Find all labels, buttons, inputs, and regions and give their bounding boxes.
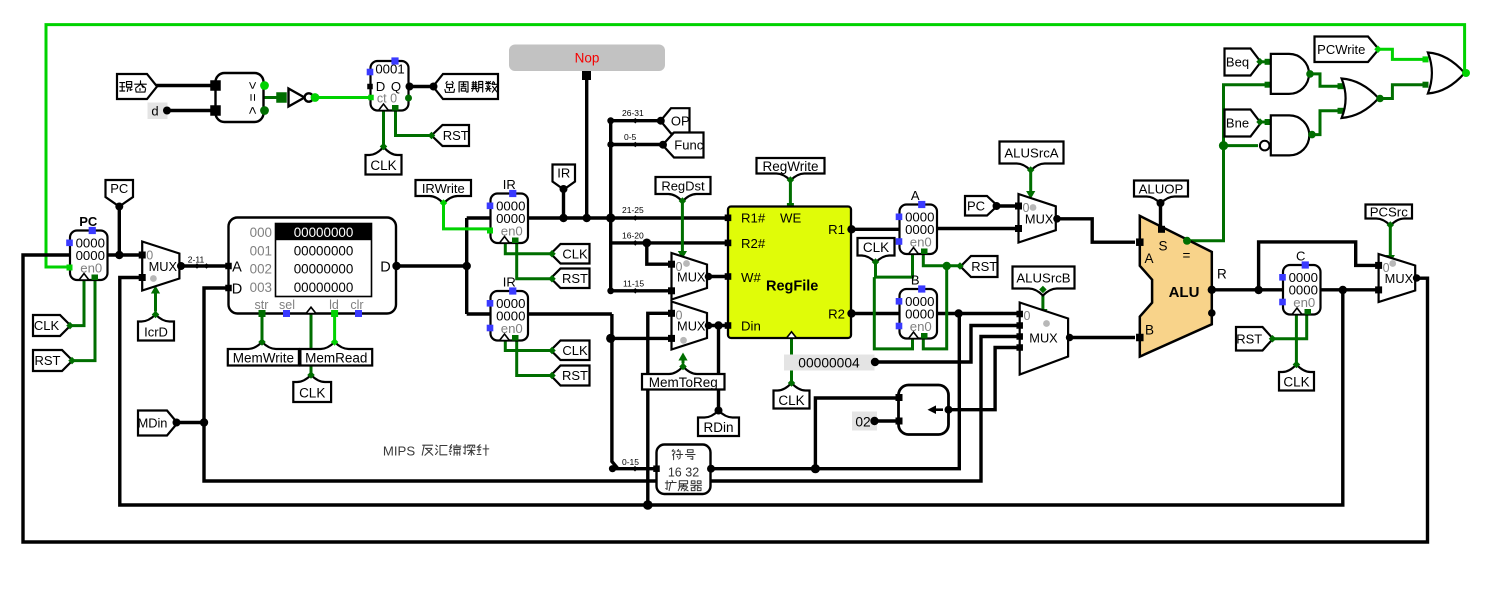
svg-text:0001: 0001 [375, 62, 404, 77]
wire RegDst select (dark green) [681, 202, 684, 253]
input pin RST for IR1 [551, 269, 590, 289]
wire bits 16-20 branch to RegDst MUX input 1 [647, 243, 673, 264]
svg-text:RegWrite: RegWrite [762, 159, 818, 174]
svg-text:CLK: CLK [34, 318, 60, 333]
wire RegFile R1 to A register D [851, 228, 901, 231]
svg-text:0-15: 0-15 [622, 457, 639, 467]
wire RAM ld to MemRead (bright green) [333, 314, 336, 343]
wire C register RST (dark green) [1273, 315, 1307, 339]
wire sign-extender output rail up to B rail [709, 315, 959, 469]
input pin MDin [138, 411, 178, 436]
input pin RST for A/B registers [961, 256, 998, 277]
register PC [66, 214, 107, 280]
svg-text:IRWrite: IRWrite [422, 181, 465, 196]
svg-text:Beq: Beq [1226, 55, 1249, 70]
wire RAM str to MemWrite (dark green) [261, 314, 264, 343]
AND gate branch-eq [1265, 54, 1314, 94]
svg-text:ALUOP: ALUOP [1139, 182, 1184, 197]
node Nop junction on instruction bus [583, 214, 591, 222]
svg-text:000: 000 [250, 225, 272, 240]
svg-text:B: B [1145, 323, 1154, 338]
multiplexer ALUSrcA MUX [1019, 194, 1056, 243]
wire PC RST (dark green) [72, 281, 95, 361]
svg-text:C: C [1296, 249, 1305, 264]
wire RegFile R2 to B register D [851, 312, 901, 315]
wire IR2 CLK (dark green) [505, 340, 551, 351]
svg-text:RST: RST [35, 353, 61, 368]
wire address MUX output to RAM A port [181, 264, 229, 267]
input pin RegWrite [757, 158, 825, 181]
shifter shift-left unit [896, 385, 953, 435]
svg-text:WE: WE [780, 211, 801, 226]
svg-text:003: 003 [250, 280, 272, 295]
wire Bne to AND gate 2 (dark green) [1260, 121, 1267, 124]
input pin IcrD [138, 315, 174, 341]
node IR2 splitter branch junction [606, 334, 615, 343]
RAM memory block [225, 218, 400, 318]
svg-text:>: > [245, 82, 260, 90]
svg-text:PCWrite: PCWrite [1317, 42, 1365, 57]
wire RAM clock from CLK label (dark green, behind MemRead) [310, 314, 313, 375]
wire AND1 output to OR1 input (dark green) [1309, 74, 1339, 86]
svg-text:00000004: 00000004 [798, 355, 860, 370]
wire ALU-result loop: address MUX in2, bottom rail, MemToReg in1, ALU R rail [120, 278, 1343, 506]
svg-text:RST: RST [1236, 331, 1262, 346]
wire MemToReg MUX output to RegFile Din, RDin branch [708, 326, 729, 410]
svg-text:00000000: 00000000 [294, 262, 354, 277]
probe d with value tag [148, 103, 168, 120]
svg-text:002: 002 [250, 262, 272, 277]
input pin RST for PC [33, 350, 73, 371]
node branch-equal junction [1219, 141, 1228, 150]
node IR label junction on instruction bus [559, 214, 567, 222]
input pin PCSrc [1366, 205, 1413, 226]
wire counter RST (dark green) [396, 110, 432, 136]
output pin RDin [698, 411, 739, 437]
wire ALUSrcB select (dark green) [1041, 290, 1044, 311]
input pin CLK for counter [366, 147, 402, 175]
wire ALUSrcA MUX output to ALU A [1057, 219, 1135, 242]
output pin PC probe label [106, 180, 134, 207]
wire ALU = flag to branch gates (dark green) [1187, 146, 1258, 241]
node ALU R junction [1254, 286, 1262, 294]
svg-text:MUX: MUX [1029, 331, 1058, 346]
input pin CLK for A/B registers [858, 238, 895, 263]
svg-text:ld: ld [329, 298, 339, 312]
svg-text:CLK: CLK [370, 158, 396, 173]
wire splitter arm bits 26-31 to OP [611, 119, 661, 122]
input pin 现态 (current state) [117, 74, 157, 99]
input pin CLK for IR1 [551, 244, 590, 264]
input pin ALUSrcB [1013, 267, 1075, 296]
output pin IR probe label [553, 165, 576, 190]
wire sign-extender branch to shifter input 1 [815, 398, 897, 469]
svg-text:IcrD: IcrD [144, 324, 168, 339]
wire splitter arm bits 16-20 to RegFile R2# [611, 241, 728, 244]
svg-text:R1#: R1# [741, 211, 766, 226]
wire C register CLK (dark green) [1295, 315, 1298, 364]
svg-text:MemWrite: MemWrite [233, 351, 294, 366]
wire IcrD select to address MUX (dark green) [154, 293, 157, 312]
node bottom rail to MemToReg junction [643, 500, 653, 510]
svg-text:CLK: CLK [299, 385, 325, 400]
svg-text:D: D [232, 282, 242, 298]
comparator U1 [210, 73, 269, 122]
node splitter spine of instruction bus [609, 121, 612, 291]
svg-text:MemToReg: MemToReg [649, 375, 718, 390]
svg-text:MemRead: MemRead [305, 351, 367, 366]
wire IR probe label drop [562, 189, 565, 218]
svg-text:21-25: 21-25 [622, 205, 644, 215]
input pin CLK for IR2 [551, 341, 590, 361]
svg-text:A: A [232, 259, 242, 275]
input pin IRWrite [416, 180, 472, 204]
svg-text:PCSrc: PCSrc [1370, 205, 1409, 220]
output pin Func [663, 133, 704, 158]
svg-text:001: 001 [250, 243, 272, 258]
svg-text:CLK: CLK [1283, 375, 1309, 390]
wire IR1 CLK (dark green) [505, 242, 551, 254]
wire ALUOP to ALU S select [1159, 204, 1162, 228]
svg-text:CLK: CLK [562, 246, 588, 261]
input pin RST for C register [1236, 327, 1273, 351]
svg-text:IR: IR [557, 166, 570, 181]
svg-text:2-11: 2-11 [188, 255, 205, 265]
input pin RegDst [656, 177, 711, 202]
ALU arithmetic unit [1136, 216, 1227, 357]
wire PCWrite-enable loop (bright green, OR output to PC en and top rail) [46, 25, 1465, 267]
multiplexer address MUX (IcrD) [142, 242, 179, 291]
wire splitter arm bits 11-15 to RegDst MUX input 2 [611, 289, 673, 292]
input pin ALUOP [1134, 181, 1188, 204]
wire B register Q to ALUSrcB MUX input 1 [937, 312, 1022, 315]
svg-text:RST: RST [971, 259, 997, 274]
node splitter junction on instruction bus [606, 213, 615, 222]
svg-text:<: < [245, 107, 260, 115]
wire constant 00000004 to ALUSrcB MUX input 2 [875, 326, 1022, 363]
svg-text:ALU: ALU [1169, 284, 1200, 301]
wire A register Q to ALUSrcA MUX input 2 [937, 227, 1021, 230]
AND gate branch-ne with inverted input [1260, 115, 1316, 155]
input pin ALUSrcA [1000, 142, 1064, 171]
svg-text:00000000: 00000000 [294, 225, 354, 240]
svg-text:D: D [380, 259, 390, 275]
wire instruction bus IR1 Q to RegFile R1# (bits 21-25) [528, 216, 728, 219]
input pin RST for counter [432, 125, 470, 146]
wire ALUSrcB MUX output to ALU B [1068, 336, 1135, 339]
svg-text:RST: RST [562, 368, 588, 383]
wire RegFile CLK (dark green) [790, 339, 793, 382]
svg-text:R: R [1217, 267, 1227, 282]
wire AND2 output to OR1 input (dark green) [1311, 111, 1339, 135]
svg-text:RST: RST [443, 128, 469, 143]
svg-text:Func: Func [674, 138, 703, 153]
svg-text:CLK: CLK [863, 240, 889, 255]
svg-text:RegFile: RegFile [766, 279, 818, 295]
svg-text:MDin: MDin [138, 416, 168, 431]
node C output junction [1339, 286, 1347, 294]
input pin Beq [1225, 49, 1261, 76]
svg-text:ct 0: ct 0 [377, 92, 397, 106]
svg-text:CLK: CLK [562, 343, 588, 358]
input pin CLK for RAM [293, 375, 331, 402]
svg-text:Bne: Bne [1226, 116, 1249, 131]
svg-text:R2#: R2# [741, 236, 766, 251]
svg-text:A: A [911, 188, 920, 203]
wire ALUSrcA select (dark green) [1029, 171, 1032, 193]
svg-text:A: A [1145, 251, 1154, 266]
wire d probe to comparator input B [167, 109, 217, 112]
OR gate branch combine [1338, 79, 1384, 119]
svg-text:S: S [1159, 239, 1168, 254]
register IR instruction register high [487, 177, 528, 243]
wire counter Q to 总周期数 [409, 85, 434, 88]
multiplexer MemToReg MUX [672, 302, 708, 350]
multiplexer ALUSrcB MUX (4 inputs) [1020, 303, 1068, 375]
svg-text:0-5: 0-5 [624, 132, 637, 142]
wire 现态 to comparator input A [156, 84, 216, 87]
svg-text:PC: PC [967, 198, 985, 213]
svg-text:MUX: MUX [677, 319, 706, 334]
svg-text:ALUSrcA: ALUSrcA [1004, 146, 1058, 161]
node Din-RDin junction [714, 321, 722, 329]
wire A/B register RST net (dark green) [923, 255, 959, 266]
output pin 总周期数 (total cycles) [433, 74, 498, 99]
input pin Bne [1225, 110, 1261, 137]
input pin MemRead [300, 342, 372, 366]
register B [896, 273, 937, 339]
wire C register Q to PCSrc MUX input 2 [1321, 288, 1381, 291]
wire ALU R to PCSrc MUX input 1 (over C register) [1259, 242, 1380, 290]
wire constant 02 to shifter input 2 [875, 419, 897, 422]
svg-text:02: 02 [855, 414, 870, 429]
svg-text:OP: OP [671, 113, 690, 128]
multiplexer RegDst MUX [672, 253, 708, 300]
wire next-PC feedback: PCSrc MUX output to PC D via bottom rail [23, 255, 1428, 542]
wire MDin to RAM data-in rail [177, 421, 205, 424]
svg-text:16-20: 16-20 [622, 231, 644, 241]
NOT gate G1 [276, 89, 319, 107]
svg-text:clr: clr [350, 298, 363, 312]
svg-text:16 32: 16 32 [668, 466, 699, 480]
wire RegDst MUX output to RegFile W# [708, 275, 729, 278]
register A [896, 188, 937, 254]
svg-text:MUX: MUX [1025, 211, 1054, 226]
node PC label junction [115, 251, 123, 259]
svg-text:MUX: MUX [1385, 271, 1414, 286]
node MDin junction [200, 418, 208, 426]
sign extender 符号 16-32 扩展器 [653, 445, 715, 495]
svg-text:B: B [911, 273, 920, 288]
svg-text:ALUSrcB: ALUSrcB [1016, 271, 1070, 286]
wire RAM data-in rail to ALUSrcB MUX input 3 (bottom rail) [204, 288, 1021, 481]
node sign-extend to shifter junction [811, 464, 820, 473]
wire MemToReg select (dark green) [682, 360, 685, 364]
wire counter CLK (dark green) [382, 110, 385, 146]
wire comparator = output to NOT gate (dark green) [264, 96, 286, 99]
wire splitter arm bits 0-5 to Func [611, 143, 663, 146]
wire IR2 RST (dark green) [517, 340, 552, 376]
svg-text:PC: PC [110, 181, 128, 196]
svg-text:MUX: MUX [149, 259, 178, 274]
svg-text:PC: PC [79, 214, 98, 229]
svg-text:IR: IR [503, 177, 516, 192]
constant Nop banner [509, 45, 665, 72]
wire A/B register CLK net (dark green) [876, 255, 913, 278]
wire Nop pin drop to instruction bus [585, 80, 588, 218]
svg-text:sel: sel [279, 298, 295, 312]
wire ALU R output to C register [1212, 288, 1284, 291]
svg-text:IR: IR [503, 275, 516, 290]
wire IR1 RST (dark green) [517, 242, 552, 279]
register C [1279, 249, 1320, 315]
svg-text:=: = [1183, 248, 1191, 263]
wire PC probe to ALUSrcA MUX input 1 [996, 204, 1020, 207]
input pin MemWrite [228, 342, 299, 366]
wire Beq to AND gate 1 (dark green) [1260, 60, 1267, 63]
input pin CLK for C register [1279, 365, 1314, 391]
constant 02 [852, 412, 877, 431]
output pin OP [661, 108, 690, 133]
output pin PC probe at ALUSrcA [965, 196, 998, 216]
wire RegWrite to RegFile WE (dark green) [789, 180, 792, 205]
node A/B reset junction [943, 262, 951, 270]
svg-text:str: str [255, 298, 269, 312]
svg-text:MUX: MUX [677, 269, 706, 284]
svg-text:RST: RST [562, 271, 588, 286]
input pin MemToReg [642, 367, 725, 390]
wire PCSrc select (dark green) [1389, 226, 1392, 257]
register IR instruction register low [487, 275, 528, 341]
svg-text:R1: R1 [828, 222, 845, 237]
svg-text:Din: Din [741, 318, 761, 333]
input pin RST for IR2 [551, 366, 590, 386]
wire IRWrite to IR enable (bright green) [444, 204, 490, 229]
svg-text:W#: W# [741, 270, 761, 285]
svg-text:RegDst: RegDst [661, 179, 705, 194]
node RAM D out junction [463, 262, 471, 270]
wire shifter output to ALUSrcB MUX input 4 [948, 348, 1022, 410]
wire PC probe label drop [118, 207, 121, 256]
svg-text:RDin: RDin [703, 420, 733, 435]
svg-text:Nop: Nop [575, 51, 600, 66]
svg-text:0: 0 [1024, 309, 1031, 323]
wire branch of ALU-result rail up to MemToReg MUX input 1 [648, 313, 673, 505]
svg-text:R2: R2 [828, 307, 845, 322]
multiplexer PCSrc MUX [1379, 254, 1416, 302]
counter U2 total-cycle counter [367, 57, 414, 110]
OR gate PC write combine [1423, 53, 1471, 94]
svg-text:11-15: 11-15 [623, 279, 644, 289]
wire RAM D output to IR register D inputs [396, 218, 491, 314]
input pin PCWrite [1315, 37, 1379, 63]
svg-text:00000000: 00000000 [294, 280, 354, 295]
node B output junction [954, 309, 962, 317]
wire NOT gate output to counter enable (bright green) [311, 96, 370, 99]
wire PC register Q to address MUX [108, 253, 143, 256]
wire OR1 output to final OR input (dark green) [1379, 85, 1424, 99]
register file RegFile [725, 207, 856, 339]
node bits 16-20 branch junction [642, 239, 651, 248]
svg-text:MIPS: MIPS [383, 444, 415, 459]
svg-text:d: d [151, 104, 158, 119]
wire IR2 Q to sign-extender splitter spine [528, 314, 657, 469]
constant 00000004 [784, 355, 875, 371]
svg-text:00000000: 00000000 [294, 243, 354, 258]
wire PCWrite label to OR gate input (bright green) [1379, 49, 1426, 59]
svg-text:CLK: CLK [778, 393, 804, 408]
svg-text:=: = [245, 94, 260, 102]
input pin CLK for PC [33, 315, 71, 336]
input pin CLK for RegFile [774, 383, 810, 409]
wire PC CLK (dark green) [70, 281, 84, 326]
wire IR2 Q branch to MemToReg MUX input 2 [612, 337, 673, 340]
svg-text:26-31: 26-31 [622, 108, 644, 118]
